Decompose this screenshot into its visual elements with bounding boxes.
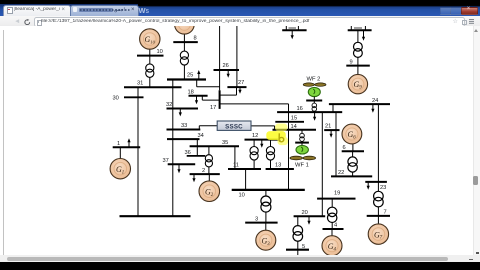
load arrow down at bus 20 bbox=[307, 217, 310, 225]
wire line 24-16 bbox=[332, 104, 334, 112]
bus 10 bbox=[137, 49, 164, 56]
svg-text:33: 33 bbox=[181, 123, 187, 129]
yellow highlighter annotation bbox=[266, 124, 288, 146]
svg-text:15: 15 bbox=[291, 116, 297, 122]
load arrow down at bus 16 bbox=[313, 112, 316, 121]
svg-text:SSSC: SSSC bbox=[225, 124, 243, 131]
wire bus 7 to G7 bbox=[377, 216, 379, 224]
omnibox page icon bbox=[37, 20, 42, 26]
wind farm WF2 rotor blades bbox=[303, 83, 326, 86]
bus 36 bbox=[185, 150, 206, 156]
tick above bus 29 right bbox=[364, 26, 366, 30]
transformer T12-11 bbox=[250, 147, 258, 161]
bus 7 bbox=[367, 210, 390, 216]
load arrow down at bus 32 bbox=[179, 109, 182, 117]
wire bus 29 to transformer T29-9 bbox=[357, 31, 359, 43]
bus 8 bbox=[173, 36, 198, 43]
svg-text:1: 1 bbox=[117, 141, 120, 147]
wire line 27-17 bbox=[221, 87, 237, 95]
transformer T29-9 bbox=[354, 43, 363, 58]
wind farm WF2 base bar bbox=[306, 97, 322, 101]
generator G7 bbox=[368, 224, 388, 244]
wire bus 6 to transformer T6-22 bbox=[352, 152, 354, 158]
wire bus 20 to transformer T20-5 bbox=[297, 217, 299, 226]
url text bbox=[41, 19, 441, 25]
transformer T19-4 bbox=[328, 207, 337, 222]
bus 27 bbox=[227, 80, 246, 87]
wire line 31-1-39 (left long vertical) bbox=[137, 87, 139, 216]
wire transformer to bus 2 bbox=[208, 167, 210, 174]
reload icon bbox=[24, 19, 31, 26]
menu icon bbox=[469, 18, 474, 21]
wind farm WF1 transformer bbox=[300, 130, 305, 143]
generator G9 bbox=[348, 75, 367, 94]
wire transformer to bus 31 bbox=[149, 78, 151, 88]
wind farm WF1 label bbox=[295, 163, 309, 169]
load arrow down at bus 2 bbox=[192, 174, 195, 182]
wire G10 to bus 10 bbox=[149, 50, 151, 56]
wire G8 to bus 8 bbox=[183, 34, 185, 43]
load arrow down at bus 12 bbox=[260, 140, 263, 148]
generator G3 bbox=[256, 230, 276, 250]
wire bus 10 to transformer T10-31 bbox=[149, 56, 151, 64]
bus 1 bbox=[113, 141, 141, 147]
bus 10b (long lower bus) bbox=[232, 190, 305, 199]
wire line 26 up (cut at top) bbox=[219, 26, 221, 70]
wind farm WF2 nacelle body bbox=[308, 88, 320, 97]
wire G6 to bus 6 bbox=[352, 144, 354, 151]
wire line 11-10 bbox=[245, 169, 247, 190]
cut label fragment above bus 29 bbox=[354, 28, 362, 29]
bus 25 bbox=[167, 73, 206, 80]
wire bus 12 to transformer T12-11 bbox=[253, 140, 255, 147]
svg-text:WF 2: WF 2 bbox=[307, 77, 321, 83]
transformer T10-31 bbox=[146, 64, 154, 77]
dark fade above title bar bbox=[138, 4, 480, 7]
bus 30 bbox=[113, 96, 144, 102]
svg-text:20: 20 bbox=[302, 210, 308, 216]
bus 15 bbox=[275, 116, 304, 122]
svg-text:13: 13 bbox=[275, 163, 281, 169]
load arrow down at bus 28 bbox=[291, 31, 294, 40]
wire trunk 16-15-14-13-10 bbox=[288, 104, 290, 190]
svg-text:10: 10 bbox=[239, 193, 245, 199]
bus 26 bbox=[214, 63, 240, 70]
omnibox bbox=[34, 17, 465, 27]
generator G10 bbox=[140, 29, 160, 49]
transformer T8-25 bbox=[180, 51, 188, 65]
bus 6 bbox=[342, 145, 364, 151]
svg-text:26: 26 bbox=[223, 63, 229, 69]
tick above bus 29 left bbox=[350, 26, 352, 30]
generator G1 bbox=[110, 159, 130, 179]
svg-text:8: 8 bbox=[194, 36, 197, 42]
svg-text:32: 32 bbox=[166, 102, 172, 108]
bus 19 bbox=[317, 191, 355, 199]
load arrow up at bus 1 bbox=[127, 138, 130, 147]
wire line 18-17 bbox=[202, 96, 219, 100]
svg-text:4: 4 bbox=[334, 223, 337, 229]
cut label fragment above bus 28 bbox=[289, 28, 297, 29]
bus 34 bbox=[167, 133, 204, 139]
SSSC box bbox=[217, 121, 251, 131]
bus 22 bbox=[331, 170, 372, 176]
svg-text:5: 5 bbox=[302, 244, 305, 250]
transformer T23-7 bbox=[374, 192, 384, 208]
generator G2 bbox=[199, 181, 220, 202]
scrollbar corner dot bbox=[476, 252, 479, 254]
wire transformer to bus 9 bbox=[357, 58, 359, 66]
bus 9 bbox=[346, 60, 370, 66]
wire line 26-17 bbox=[219, 70, 221, 90]
wire bus 3 to G3 bbox=[265, 223, 267, 231]
bottom scrollbar track bbox=[0, 255, 480, 262]
wire bus 35 to transformer T35-2 bbox=[208, 147, 210, 155]
bus 17 (vertical bar) bbox=[210, 91, 220, 112]
svg-text:37: 37 bbox=[163, 158, 169, 164]
bus 32 bbox=[166, 102, 198, 108]
wire transformer to bus 3 bbox=[265, 212, 267, 223]
bus 5 bbox=[286, 244, 309, 250]
svg-text:WF 1: WF 1 bbox=[295, 163, 309, 169]
bus 28 bbox=[282, 30, 306, 32]
bus 18 bbox=[188, 90, 208, 96]
load arrow down at bus 18 bbox=[195, 96, 198, 104]
tab favicon bbox=[7, 7, 13, 14]
wire bus 33 to SSSC bbox=[199, 126, 217, 130]
bottom scrollbar thumb bbox=[7, 257, 448, 261]
wire bus 12 to transformer T12-13 bbox=[270, 140, 272, 147]
load arrow down at bus 37 bbox=[177, 164, 180, 173]
wire line 27 up (cut at top) bbox=[236, 26, 238, 87]
wire transformer to bus 5 bbox=[297, 241, 299, 255]
tab title bbox=[14, 7, 60, 13]
wire transformer to bus 7 bbox=[377, 207, 379, 216]
load arrow down at bus 26 bbox=[227, 70, 230, 78]
wire line 17-16 (with corner) bbox=[221, 103, 289, 105]
wire transformer to bus 25 bbox=[183, 65, 185, 80]
window maximize button bbox=[450, 7, 462, 15]
small toolbar icon bbox=[462, 20, 467, 25]
bottom letterbox black bar bbox=[0, 262, 480, 270]
wire transformer to bus 22 bbox=[352, 172, 354, 176]
wire bus 23 to transformer T23-7 bbox=[377, 182, 379, 191]
wire bus 19 to transformer T19-4 bbox=[331, 199, 333, 208]
W watermark on title bar bbox=[139, 6, 149, 15]
bus 29 bbox=[348, 30, 372, 32]
svg-text:24: 24 bbox=[372, 98, 378, 104]
bus 14 bbox=[273, 124, 317, 130]
svg-text:14: 14 bbox=[291, 124, 297, 130]
transformer T6-22 bbox=[348, 157, 357, 172]
inactive tab selected-text block bbox=[79, 8, 113, 13]
svg-text:10: 10 bbox=[157, 49, 163, 55]
bookmark star icon bbox=[453, 18, 458, 25]
svg-text:6: 6 bbox=[343, 145, 346, 151]
inactive tab bbox=[70, 5, 139, 16]
transformer T10-3 bbox=[261, 196, 271, 212]
wind farm WF1 base bar bbox=[295, 143, 309, 146]
svg-text:12: 12 bbox=[252, 133, 258, 139]
bus 13 bbox=[266, 163, 294, 169]
window minimize button bbox=[440, 7, 452, 15]
wire bus 8 to transformer T8-25 bbox=[183, 42, 185, 51]
transformer T35-2 bbox=[205, 155, 212, 167]
bus 3 bbox=[245, 217, 277, 223]
svg-text:30: 30 bbox=[113, 96, 119, 102]
arrow up at bus 25 bbox=[197, 70, 200, 80]
load arrow down at bus 29 bbox=[362, 31, 365, 41]
svg-text:34: 34 bbox=[198, 133, 204, 139]
bus 39 (bottom-left long bus) bbox=[120, 215, 191, 217]
svg-text:25: 25 bbox=[187, 73, 193, 79]
wind farm WF1 nacelle body bbox=[296, 146, 308, 155]
wind farm WF1 rotor blades bbox=[290, 156, 316, 160]
tick above bus 28 right bbox=[297, 26, 299, 30]
svg-text:31: 31 bbox=[137, 81, 143, 87]
right scrollbar top arrow bbox=[474, 29, 478, 32]
svg-text:27: 27 bbox=[238, 80, 244, 86]
wire SSSC to bus 14 bbox=[251, 126, 275, 130]
svg-text:23: 23 bbox=[380, 185, 386, 191]
load arrow down at bus 21 bbox=[330, 130, 333, 138]
generator G6 bbox=[342, 124, 362, 144]
bus 21 bbox=[324, 124, 339, 130]
svg-text:17: 17 bbox=[210, 105, 216, 111]
load arrow down at bus 23 bbox=[367, 182, 370, 190]
svg-text:21: 21 bbox=[325, 124, 331, 130]
wire line 34-35-36 bbox=[196, 139, 198, 156]
active browser tab bbox=[3, 5, 71, 17]
bus 24 bbox=[329, 98, 390, 104]
wind farm WF2 (label) bbox=[307, 77, 321, 83]
browser title bar (blue aero) bbox=[0, 4, 480, 16]
wire line 16-19-20 bbox=[321, 112, 323, 216]
bus 31 bbox=[124, 81, 182, 88]
back arrow (disabled) bbox=[14, 18, 20, 25]
wire transformer to bus 4 bbox=[331, 223, 333, 230]
svg-text:22: 22 bbox=[338, 170, 344, 176]
bus 4 bbox=[323, 223, 344, 229]
load arrow down at bus 27 bbox=[238, 87, 241, 94]
wire transformer to bus 11 bbox=[253, 160, 255, 169]
svg-text:3: 3 bbox=[255, 217, 258, 223]
bus 20 bbox=[294, 210, 326, 216]
wire bus 1 to G1 bbox=[119, 147, 121, 158]
transformer T12-13 bbox=[266, 147, 274, 161]
load arrow down at bus 24 bbox=[371, 104, 374, 113]
bus 11 bbox=[228, 163, 261, 169]
bus 23 bbox=[365, 182, 387, 191]
bus 35 bbox=[190, 140, 239, 146]
top letterbox black bar bbox=[0, 0, 480, 4]
svg-text:36: 36 bbox=[185, 150, 191, 156]
wire bus 4 to G4 bbox=[331, 229, 333, 236]
right scrollbar thumb bbox=[473, 176, 478, 185]
pdf page left edge bbox=[2, 30, 5, 256]
right scrollbar track bbox=[473, 26, 480, 255]
wire bus 2 to G2 bbox=[208, 174, 210, 181]
wind farm WF2 transformer bbox=[312, 101, 317, 113]
window close button bbox=[461, 7, 478, 16]
browser toolbar bbox=[0, 16, 480, 28]
svg-text:7: 7 bbox=[384, 210, 387, 216]
bus 16 bbox=[277, 106, 342, 112]
wire transformer to bus 13 bbox=[270, 160, 272, 169]
wire bus 25 to node (line 25-26) bbox=[197, 80, 220, 87]
transformer T20-5 bbox=[293, 226, 303, 242]
bus 37 bbox=[163, 158, 196, 164]
bus 12 bbox=[245, 133, 282, 140]
wire line 35-11 bbox=[234, 147, 236, 170]
tab close x bbox=[62, 7, 66, 13]
wire bus 9 to G9 bbox=[357, 66, 359, 75]
wire line 24-23 bbox=[377, 104, 379, 182]
wire bus 10b to transformer T10-3 bbox=[265, 190, 267, 196]
svg-text:19: 19 bbox=[334, 191, 340, 197]
svg-text:16: 16 bbox=[297, 106, 303, 112]
bus 2 bbox=[190, 168, 220, 174]
svg-text:18: 18 bbox=[188, 90, 194, 96]
wire line 31-32-33-34-37-39 (vertical) bbox=[172, 80, 174, 217]
tick above bus 28 left bbox=[285, 26, 287, 30]
bus 33 bbox=[167, 123, 201, 129]
wire line 16-21-22 bbox=[335, 112, 337, 176]
svg-text:35: 35 bbox=[222, 140, 228, 146]
svg-text:9: 9 bbox=[350, 60, 353, 66]
yellow pen squiggle bbox=[279, 134, 284, 142]
svg-text:2: 2 bbox=[202, 168, 205, 174]
generator G4 bbox=[322, 236, 342, 256]
svg-text:11: 11 bbox=[233, 163, 239, 169]
generator G8 (clipped at top) bbox=[175, 15, 195, 35]
